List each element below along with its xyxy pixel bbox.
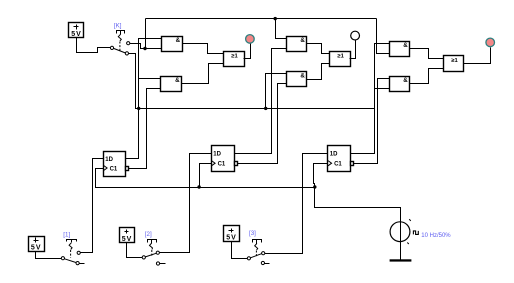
svg-text:10 Hz/50%: 10 Hz/50% — [421, 233, 451, 239]
flip-flop FF3 box — [328, 146, 351, 172]
wire top rail — [146, 18, 377, 20]
switch 1 arm — [65, 259, 76, 263]
switch 2 spring — [150, 243, 153, 250]
svg-text:&: & — [300, 73, 305, 80]
clock pulse glyph — [413, 231, 418, 235]
svg-text:5V: 5V — [226, 235, 236, 242]
wire battery B3 to switch 3 pole — [232, 242, 248, 259]
AND gate U1A box — [162, 37, 183, 52]
wire rail drop to U3A top input — [276, 19, 287, 39]
switch 2 dashed link — [151, 250, 153, 256]
FF1 Qbar notch — [126, 167, 129, 171]
svg-text:≥1: ≥1 — [337, 53, 344, 59]
svg-text:5V: 5V — [71, 31, 81, 38]
wire Q1 bus up to U3B top input — [266, 74, 287, 109]
wire U1A out to OR U2A top input — [183, 44, 224, 54]
battery B3 plus sign — [229, 229, 234, 233]
svg-text:&: & — [403, 42, 408, 49]
switch 1 dashed link — [70, 250, 72, 258]
wire FF1 Qbar up to gate U1B input B — [126, 89, 161, 169]
AND gate U3B box — [287, 72, 307, 87]
svg-text:≥1: ≥1 — [231, 53, 238, 59]
switch 1 lower throw contact — [76, 262, 79, 265]
switch 3 upper throw contact — [262, 252, 265, 255]
wire switch K upper throw to node A and gate U1A input B — [130, 44, 162, 49]
junction dot node clock rail FF2.C — [197, 185, 200, 188]
switch 3 pole contact — [247, 257, 250, 260]
switch 1 upper throw contact — [77, 251, 80, 254]
junction dot node Q1 bus left — [137, 107, 140, 110]
battery V1 plus sign — [74, 25, 79, 30]
flip-flop FF2 box — [212, 146, 235, 172]
svg-text:[K]: [K] — [114, 22, 122, 29]
wire clock source feed and drop to ground — [315, 188, 401, 260]
wire FF3 Q tap to U5B bottom input — [375, 88, 390, 90]
wire FF2 Qbar up to U3B bottom input — [235, 84, 287, 164]
wire switch 1 lower throw stub — [80, 263, 85, 265]
svg-text:1D: 1D — [330, 151, 338, 157]
svg-text:C1: C1 — [334, 162, 342, 168]
switch 1 pole contact — [61, 257, 64, 260]
switch K key bracket — [117, 31, 125, 35]
wire Q1 horizontal bus — [139, 108, 375, 110]
switch 1 spring — [69, 243, 72, 250]
wire switch 3 lower throw stub — [265, 263, 270, 265]
battery B1 plus sign — [34, 238, 39, 243]
switch 2 lower throw contact — [156, 262, 159, 265]
switch K dashed link — [119, 42, 121, 51]
switch 3 spring — [255, 243, 258, 250]
junction dot node clock rail right — [313, 185, 316, 188]
svg-text:[1]: [1] — [63, 231, 70, 238]
wire battery B1 to switch 1 pole — [36, 252, 62, 259]
FF3 clock edge triangle — [328, 161, 332, 166]
svg-text:1D: 1D — [105, 157, 113, 163]
FF2 Qbar notch — [235, 162, 238, 166]
wire OR U4A out up to probe X2 — [350, 41, 356, 59]
OR gate U6A box — [444, 56, 464, 72]
battery B2 plus sign — [125, 230, 129, 234]
switch K arm — [114, 48, 126, 53]
FF3 Qbar notch — [351, 162, 354, 166]
battery V1 box — [69, 23, 84, 38]
switch K upper throw contact — [127, 42, 130, 45]
switch 3 key bracket — [253, 240, 262, 244]
wire switch 2 lower throw stub — [160, 263, 166, 265]
clock source V2 circle — [390, 222, 410, 242]
junction dot node A (switch K / rail / U1A-B) — [143, 47, 146, 50]
AND gate U3A box — [287, 37, 307, 52]
wire node A up to top rail — [145, 19, 147, 49]
wire FF3 D from switch 3 — [265, 154, 328, 254]
switch 3 dashed link — [255, 251, 257, 257]
svg-text:&: & — [176, 37, 181, 44]
flip-flop FF1 box — [104, 152, 126, 177]
wire U5B out to OR U6A bottom input — [410, 69, 444, 84]
svg-text:&: & — [403, 77, 408, 84]
svg-text:&: & — [300, 37, 305, 44]
svg-text:C1: C1 — [110, 166, 118, 172]
junction dot node Q1 bus to U3B — [264, 107, 267, 110]
AND gate U5A box — [390, 42, 410, 57]
ground symbol — [390, 259, 412, 261]
wire U5A out to OR U6A top input — [410, 49, 444, 59]
svg-text:5V: 5V — [31, 245, 41, 252]
probe X2 (white, off) — [351, 31, 360, 40]
clock plus tick — [409, 219, 411, 221]
svg-text:&: & — [175, 77, 180, 84]
switch 1 key bracket — [67, 240, 77, 243]
wire FF1 C and clock rail — [96, 169, 315, 188]
FF2 clock edge triangle — [212, 161, 216, 166]
wire top rail drop to U5A bottom input — [377, 19, 390, 54]
wire switch K lower throw down to Q1 bus — [129, 54, 139, 109]
wire FF1 D from switch 1 — [81, 159, 104, 253]
switch K spring — [118, 34, 121, 41]
switch 2 pole contact — [142, 256, 145, 259]
wire U3A out to OR U4A top input — [307, 44, 330, 54]
wire battery B2 to switch 2 pole — [127, 243, 143, 258]
switch 2 key bracket — [148, 240, 157, 244]
FF1 clock edge triangle — [104, 165, 108, 170]
svg-text:[2]: [2] — [145, 231, 152, 238]
probe X3 (red, on) — [486, 38, 495, 47]
OR gate U4A box — [330, 52, 351, 67]
battery B3 box — [224, 226, 240, 242]
probe X1 (red, on) — [246, 35, 255, 44]
wire OR U6A out up to probe X3 — [464, 48, 491, 64]
battery B1 box — [29, 237, 45, 252]
wire FF1 Q up to gate U1A input A — [126, 39, 162, 159]
OR gate U2A box — [224, 52, 245, 67]
switch 2 arm — [145, 253, 156, 257]
switch K pole contact — [110, 46, 113, 49]
wire FF2 D from switch 2 — [160, 154, 212, 253]
switch 2 upper throw contact — [156, 251, 159, 254]
wire FF3 C to clock rail — [314, 164, 328, 188]
clock minus tick — [407, 243, 409, 245]
wire FF3 Qbar up to U5B top input — [351, 79, 390, 164]
switch 3 arm — [251, 254, 262, 258]
wire U1B out to OR U2A bottom input — [182, 64, 224, 84]
svg-text:5V: 5V — [122, 236, 132, 243]
wire OR U2A out up to probe X1 — [244, 44, 251, 59]
svg-text:C1: C1 — [218, 162, 226, 168]
svg-text:≥1: ≥1 — [451, 58, 458, 64]
wire FF3 Q up to U5A top input — [351, 44, 390, 154]
wire U3B out to OR U4A bottom input — [307, 64, 330, 80]
wire FF2 Q up to U3A bottom input — [235, 49, 287, 154]
AND gate U5B box — [390, 77, 410, 92]
wire tap to gate U1B input A — [139, 78, 161, 80]
wire FF2 C to clock rail — [200, 164, 212, 188]
switch K lower throw contact — [125, 52, 128, 55]
svg-text:1D: 1D — [213, 151, 221, 157]
switch 3 lower throw contact — [261, 261, 264, 264]
AND gate U1B box — [161, 77, 182, 92]
junction dot node rail to U3A — [274, 17, 277, 20]
wire battery V1 to switch K pole — [77, 38, 111, 53]
battery B2 box — [120, 228, 135, 243]
svg-text:[3]: [3] — [249, 230, 256, 237]
